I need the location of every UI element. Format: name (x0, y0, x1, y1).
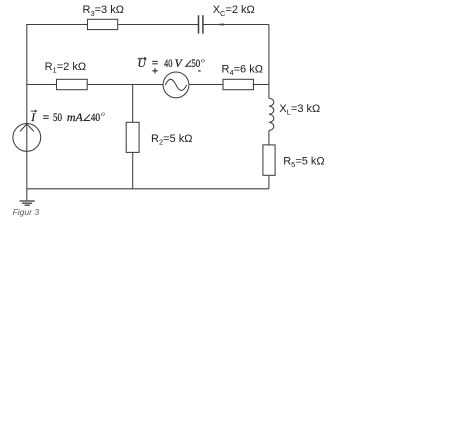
wire junction overlap mark (220, 24, 225, 26)
svg-text:XC=2 kΩ: XC=2 kΩ (213, 4, 255, 18)
inductor XL (269, 98, 274, 130)
wire second row left (27, 84, 57, 86)
wire source to R4 (189, 84, 223, 86)
svg-text:=: = (152, 57, 159, 70)
svg-text:40: 40 (164, 57, 173, 70)
wire right vertical upper (268, 25, 270, 99)
resistor R3 (88, 19, 118, 29)
svg-text:V: V (175, 57, 184, 70)
svg-text:o: o (101, 109, 105, 118)
svg-text:R3=3 kΩ: R3=3 kΩ (83, 4, 124, 18)
svg-text:R1=2 kΩ: R1=2 kΩ (45, 61, 86, 75)
svg-text:I: I (30, 111, 36, 124)
wire top rail mid segment (118, 24, 198, 26)
svg-text:mA: mA (67, 111, 84, 124)
wire top rail right segment (203, 24, 269, 26)
current source I1 circle (13, 123, 41, 151)
wire R1 to node A (87, 84, 163, 86)
svg-text:R5=5 kΩ: R5=5 kΩ (283, 155, 324, 169)
angle symbol of I label (84, 115, 90, 121)
vector arrow over I (31, 110, 37, 112)
resistor R1 (57, 79, 88, 89)
ground (20, 201, 35, 205)
wire middle vertical lower (132, 152, 134, 188)
wire left vertical (26, 25, 28, 201)
current source arrow head (20, 124, 33, 131)
wire between XL and R5 (268, 130, 270, 145)
voltage source sine (165, 79, 186, 90)
plus polarity mark (152, 68, 157, 73)
svg-text:=: = (43, 111, 50, 124)
voltage source U circle (163, 72, 189, 98)
wire right vertical lower (268, 175, 270, 189)
angle symbol of U label (186, 60, 192, 66)
wire top rail left segment (26, 24, 88, 26)
wire bottom rail (27, 188, 269, 190)
svg-text:R2=5 kΩ: R2=5 kΩ (151, 133, 192, 147)
resistor R5 (263, 145, 275, 175)
svg-text:Figur 3: Figur 3 (13, 207, 40, 217)
resistor R4 (223, 79, 254, 89)
svg-text:R4=6 kΩ: R4=6 kΩ (222, 64, 263, 78)
label U source value (138, 55, 206, 70)
vector arrow over U (138, 57, 147, 59)
svg-text:50: 50 (53, 111, 62, 124)
wire middle vertical upper (132, 85, 134, 123)
svg-text:XL=3 kΩ: XL=3 kΩ (279, 103, 320, 117)
wire R4 to right rail (253, 84, 269, 86)
minus polarity mark (198, 70, 201, 72)
svg-text:o: o (201, 55, 205, 64)
svg-text:50: 50 (191, 57, 200, 70)
resistor R2 (126, 122, 139, 152)
label I source value (30, 109, 105, 124)
svg-text:40: 40 (91, 111, 101, 124)
capacitor XC (199, 15, 203, 33)
